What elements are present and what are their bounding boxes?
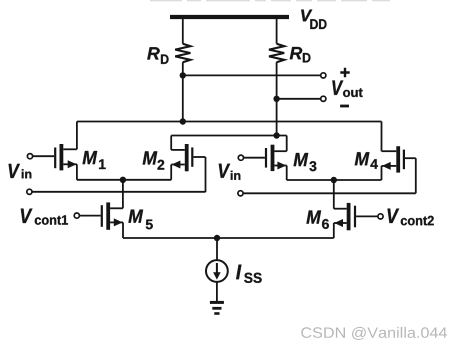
label M2 (143, 151, 165, 169)
wire: M4 drain vertical (381, 122, 383, 152)
terminal middle Vin- (238, 191, 243, 196)
transistor M1 (32, 144, 77, 180)
label M1 (83, 151, 106, 169)
label M5 (128, 210, 152, 230)
label VDD (301, 10, 326, 29)
plus sign (Vout+) (340, 68, 349, 77)
junction: right RD / Vout- (273, 96, 279, 102)
label Vout (332, 81, 362, 98)
transistor M5 (79, 202, 123, 238)
wire: left RD top lead (182, 19, 184, 44)
resistor RD (right) (269, 44, 284, 62)
wire: right RD top lead (276, 19, 278, 44)
label Vin (left) (9, 164, 32, 178)
wire: Vout+ tap (183, 74, 321, 76)
watermark (301, 327, 447, 340)
terminal Vcont2 (378, 214, 383, 219)
transistor M2 (171, 144, 205, 192)
label RD (left) (147, 47, 168, 64)
junction: bottom rail / ISS (214, 235, 220, 241)
wire: M2 drain vertical (170, 136, 172, 150)
resistor RD (left) (175, 44, 190, 62)
junction: left RD / Vout+ (180, 72, 186, 78)
terminal left Vin- (27, 189, 32, 194)
wire: node X rail (M1/M4 drains) (77, 121, 382, 123)
terminal Vcont1 (74, 213, 79, 218)
terminal Vout+ (321, 73, 326, 78)
wire: left RD bottom lead to node X (182, 62, 184, 121)
label M3 (294, 153, 317, 171)
transistor M6 (334, 203, 378, 238)
wire: right RD bottom lead to node Y (276, 62, 278, 135)
wire: node Y rail (M2/M3 drains) (171, 135, 287, 137)
junction: right RD / node Y (273, 132, 279, 138)
wire: left tail (M1/M2 sources) (77, 179, 171, 181)
wire: right tail down to M6 drain (333, 180, 335, 209)
minus sign (Vout-) (340, 105, 349, 108)
label Vin (middle) (219, 164, 241, 180)
wire: Vout- tap (277, 98, 321, 100)
label RD (right) (290, 47, 311, 62)
wire: bottom rail (M5/M6 sources) (123, 237, 334, 239)
label Vcont1 (21, 209, 68, 225)
wire: left tail down to M5 drain (122, 180, 124, 209)
wire: M3 drain vertical (286, 136, 288, 152)
wire: middle Vin- to M4 gate (243, 192, 416, 194)
junction: left tail node (120, 177, 126, 183)
ground (210, 302, 224, 313)
wire: bottom rail to current source (216, 238, 218, 260)
wire: current source to ground (216, 282, 218, 301)
transistor M3 (266, 145, 287, 180)
label Vcont2 (388, 209, 434, 226)
wire: left Vin- to M2 gate (32, 191, 206, 193)
wire: middle Vin+ to M3 gate (243, 157, 265, 159)
label M6 (306, 211, 328, 229)
terminal Vout- (321, 96, 326, 101)
label ISS (236, 265, 262, 283)
terminal left Vin+ (27, 154, 32, 159)
transistor M4 (382, 146, 416, 193)
junction: left RD / node X (180, 118, 186, 124)
junction: right tail node (331, 177, 337, 183)
wire: M1 drain vertical (76, 122, 78, 150)
wire: right tail (M3/M4 sources) (287, 179, 382, 181)
terminal middle Vin+ (238, 155, 243, 160)
current source ISS (206, 260, 228, 282)
VDD rail (170, 15, 289, 19)
label M4 (355, 152, 378, 169)
